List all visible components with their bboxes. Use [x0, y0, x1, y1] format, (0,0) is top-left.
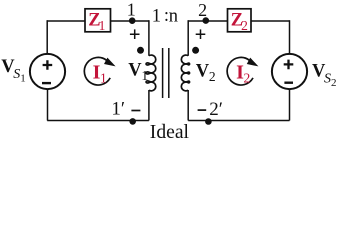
wire Z2 to right corner: [251, 20, 290, 22]
wire bottom-right: [188, 120, 289, 122]
wire Z1 to node 1: [111, 20, 149, 22]
svg-text:V: V: [196, 62, 210, 82]
minus of V1: [131, 110, 140, 112]
svg-text:S: S: [13, 67, 20, 82]
svg-text:2: 2: [241, 18, 248, 33]
mesh current I2 arc: [227, 57, 253, 85]
wire left source down: [47, 89, 49, 120]
svg-text:1′: 1′: [111, 98, 125, 119]
svg-text:1: 1: [100, 71, 107, 86]
impedance Z1 box: [85, 9, 111, 32]
minus in VS2: [284, 81, 293, 83]
svg-text:1: 1: [127, 0, 136, 19]
svg-text:1: 1: [152, 6, 161, 26]
svg-text:n: n: [169, 6, 178, 26]
svg-text:1: 1: [141, 68, 148, 83]
minus of V2: [198, 109, 207, 111]
wire top-left horizontal: [47, 20, 84, 22]
wire secondary down: [187, 90, 189, 121]
node 1: [129, 17, 136, 24]
svg-text:2: 2: [198, 0, 207, 20]
wire riser secondary: [187, 20, 189, 56]
wire bottom-left: [47, 120, 149, 122]
svg-text:2: 2: [209, 69, 216, 84]
transformer core: [163, 48, 169, 98]
impedance Z2 box: [228, 9, 252, 32]
voltage source VS2: [272, 54, 307, 89]
transformer primary coil: [146, 55, 156, 91]
svg-text:2: 2: [244, 71, 251, 86]
wire right riser: [289, 20, 291, 53]
wire primary down: [148, 90, 150, 121]
mesh current I1 arrowhead: [104, 58, 116, 67]
svg-text:1: 1: [20, 73, 26, 85]
svg-text:Ideal: Ideal: [150, 122, 190, 143]
polarity dot secondary: [192, 47, 199, 54]
node 2': [205, 118, 212, 125]
svg-text:S: S: [324, 71, 331, 86]
wire left riser: [46, 20, 48, 53]
mesh current I2 arrowhead: [247, 58, 259, 67]
svg-text:1: 1: [99, 18, 106, 33]
voltage source VS1: [30, 54, 65, 89]
plus in VS2: [284, 60, 294, 70]
plus of V1: [130, 29, 140, 39]
wire riser primary: [148, 20, 150, 56]
svg-text:V: V: [128, 61, 142, 81]
wire right source down: [289, 89, 291, 120]
wire top secondary to Z2: [188, 20, 227, 22]
node 2: [203, 17, 210, 24]
svg-text:2: 2: [331, 77, 337, 89]
plus of V2: [196, 29, 206, 39]
plus in VS1: [43, 60, 53, 70]
minus in VS1: [42, 82, 51, 84]
svg-text:2′: 2′: [209, 99, 223, 120]
polarity dot primary: [137, 47, 144, 54]
transformer secondary coil: [181, 55, 189, 91]
node 1': [129, 118, 136, 125]
mesh current I1 arc: [84, 57, 110, 85]
